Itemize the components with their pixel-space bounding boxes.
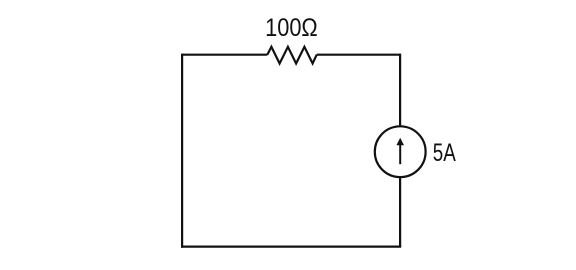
wire left segment — [181, 54, 183, 248]
label 100Ω — [265, 15, 318, 43]
current source I1 circle — [375, 126, 426, 177]
resistor R1 100Ω zigzag — [267, 47, 316, 64]
current source I1 arrowhead — [396, 138, 404, 146]
current source I1 arrow stem — [399, 144, 401, 164]
wire right upper segment — [399, 54, 401, 127]
wire bottom segment — [181, 246, 401, 248]
wire right lower segment — [399, 177, 401, 247]
wire top-left segment — [182, 54, 267, 56]
svg-text:100Ω: 100Ω — [265, 15, 318, 43]
svg-text:5A: 5A — [433, 138, 456, 166]
label 5A — [433, 138, 456, 166]
wire top-right segment — [317, 54, 400, 56]
